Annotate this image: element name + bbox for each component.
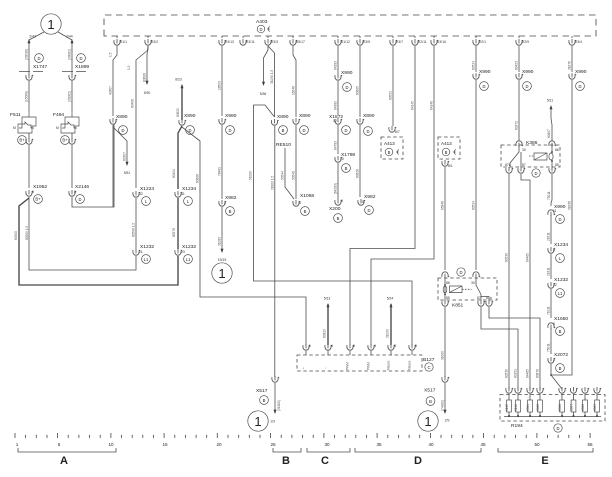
off-page arrow 5/24 to B127 [386,297,394,346]
section bracket C [307,448,350,467]
svg-text:30: 30 [324,442,330,447]
svg-text:[64283]: [64283] [334,183,338,194]
wire K386 87a output down to R194 [505,167,514,389]
svg-text:D: D [228,128,231,133]
svg-text:F511: F511 [10,112,21,118]
svg-text:31636: 31636 [568,201,572,210]
svg-text:D: D [78,197,81,202]
connector X1232 (right) [175,244,197,263]
A403 pin X2/9 [516,36,529,45]
svg-text:1.5: 1.5 [109,52,113,57]
svg-text:31090 1.5: 31090 1.5 [270,70,274,84]
svg-text:L1: L1 [144,257,149,262]
svg-text:B: B [229,209,232,214]
wire X2/1 down [472,46,477,72]
wire X3/2 stub to off-page 5/30 [143,46,151,95]
svg-text:15: 15 [162,442,168,447]
svg-text:5/13: 5/13 [324,297,331,301]
svg-text:71011: 71011 [547,306,551,315]
antenna module A413 (right) [438,137,460,168]
node 1 circle (bottom left) [248,411,268,431]
svg-text:80500: 80500 [14,231,18,240]
svg-text:M: M [56,126,59,130]
svg-text:1: 1 [16,442,19,447]
B127 pin 2 [324,344,334,369]
svg-text:1: 1 [254,414,261,429]
connector X1650 [547,316,569,354]
svg-text:K851: K851 [452,303,464,309]
A403 pin X3/4 [569,36,582,45]
svg-text:PWM: PWM [367,362,371,370]
svg-text:60524: 60524 [472,61,476,70]
svg-text:B127: B127 [423,357,435,363]
wire K851 85 output down to X517 right [441,300,450,377]
svg-text:X200: X200 [329,206,341,212]
svg-text:RE510: RE510 [276,142,291,148]
svg-text:45: 45 [480,442,486,447]
connector X890 (under X1/1) [110,114,128,207]
svg-text:5: 5 [58,442,61,447]
wire X2/9 down [515,46,520,72]
svg-text:40: 40 [428,442,434,447]
svg-text:X1234: X1234 [554,242,568,248]
svg-text:D: D [259,27,262,32]
svg-text:X517: X517 [424,388,436,394]
wire X3/3 down with 5/36 stub [260,46,275,117]
svg-text:64783: 64783 [334,141,338,150]
svg-text:65846: 65846 [441,201,445,210]
svg-text:L1: L1 [186,257,191,262]
svg-text:X3/13: X3/13 [225,40,234,44]
svg-text:6066: 6066 [558,404,562,411]
svg-text:10: 10 [108,442,114,447]
svg-text:B: B [345,166,348,171]
svg-text:1.5: 1.5 [127,65,131,70]
connector X1232 (left) [133,244,155,263]
svg-text:D: D [578,84,581,89]
svg-text:X517: X517 [256,388,268,394]
wire X2/11 down and route to B127 pin3 [350,46,415,345]
wire X1952 branch 80509 down to X1232 left [25,197,136,270]
svg-text:X2/1: X2/1 [479,40,486,44]
wire X3/7 down to 8/7 [389,46,400,134]
section bracket B [273,448,301,467]
section bracket E [498,448,593,467]
R194 resistor 7 [581,387,589,417]
svg-text:6116: 6116 [514,404,518,411]
A403 pin X3/16 [431,36,446,45]
svg-text:X890: X890 [363,113,375,119]
fuse F494 [53,111,79,188]
connector X1232 (right column) [547,277,569,318]
B127 pin 6 [408,344,418,370]
svg-text:D: D [37,56,40,61]
svg-text:60605: 60605 [356,86,360,95]
svg-text:6/23: 6/23 [175,78,182,82]
svg-text:80404: 80404 [172,169,176,178]
B127 pin 4 [367,344,377,370]
svg-text:X1952: X1952 [33,184,47,190]
svg-text:16546: 16546 [292,86,296,95]
svg-text:31090: 31090 [386,329,390,338]
connector X982 (X3/13 chain) [218,195,237,249]
svg-text:X2/9: X2/9 [522,40,529,44]
svg-text:64283: 64283 [334,61,338,70]
connector X1234 (right column) [547,242,569,279]
svg-text:D: D [302,128,305,133]
svg-text:60406: 60406 [131,99,135,108]
svg-text:X1/12: X1/12 [341,40,350,44]
svg-text:B: B [429,399,432,404]
svg-text:A413: A413 [441,141,452,146]
svg-text:20: 20 [216,442,222,447]
R194 resistor 6 [570,387,578,417]
svg-text:B: B [388,150,391,155]
svg-text:X3/16: X3/16 [437,40,446,44]
svg-text:B+: B+ [62,138,68,143]
svg-text:X3/2: X3/2 [151,40,158,44]
svg-text:B: B [304,209,307,214]
svg-text:60629: 60629 [176,108,180,117]
connector X1224 [132,186,155,249]
svg-text:19/19: 19/19 [218,258,227,262]
svg-text:D: D [558,217,561,222]
svg-text:1: 1 [309,344,311,348]
svg-text:B: B [445,150,448,155]
svg-text:2/41: 2/41 [29,35,36,39]
svg-text:1: 1 [47,17,54,32]
svg-text:50540: 50540 [292,171,296,180]
svg-text:78461: 78461 [218,167,222,176]
grid ruler [15,433,590,438]
svg-text:X1899: X1899 [75,64,89,70]
connector X1952 [26,184,48,203]
wire 8/1 down to relay K851 coil [441,167,446,270]
svg-text:X3/7: X3/7 [396,40,403,44]
off-page arrow 19/19 into node 1 [218,249,227,262]
wire X1952 branch 80500 heavy to X1232 right [14,198,178,285]
svg-text:PWM: PWM [346,362,350,370]
svg-text:L1: L1 [558,291,563,296]
svg-text:6068: 6068 [581,404,585,411]
connector X1798 [334,152,356,199]
svg-text:D: D [121,128,124,133]
svg-text:75011: 75011 [547,191,551,200]
svg-text:−: − [324,367,328,369]
svg-text:1/3: 1/3 [270,420,275,424]
svg-text:B+: B+ [19,138,25,143]
svg-text:30: 30 [522,148,526,152]
A403 pin X3/7 [390,36,403,45]
svg-text:M: M [13,126,16,130]
connector X982 (X3/5 chain) [358,194,376,214]
svg-text:D: D [367,208,370,213]
resistor RE510 [276,142,294,199]
svg-text:B: B [559,329,562,334]
svg-text:(74900): (74900) [441,400,445,411]
svg-text:X982: X982 [225,195,237,201]
R194 resistor 4 [536,387,544,417]
B127 pin 1 [302,344,312,369]
svg-text:60372: 60372 [515,121,519,130]
svg-text:30: 30 [471,281,475,285]
svg-text:64389: 64389 [334,101,338,110]
connector X1234 [172,186,196,249]
svg-text:(15008): (15008) [25,91,29,102]
svg-text:21811: 21811 [547,232,551,241]
svg-text:21811: 21811 [547,267,551,276]
wire K386 87 output down to R194 [518,167,530,389]
control unit A403 dashed box [104,15,596,36]
svg-text:60608: 60608 [143,73,147,82]
svg-text:D: D [525,84,528,89]
svg-text:X1747: X1747 [33,64,47,70]
svg-text:X990: X990 [575,69,587,75]
wire X3/2 branch to X1224 [127,46,148,188]
svg-text:(30002): (30002) [68,49,72,60]
connector X2072 [548,352,569,389]
svg-text:X2/11: X2/11 [418,40,427,44]
connector X517 (left) [256,376,281,424]
svg-text:80578: 80578 [172,228,176,237]
svg-text:60524: 60524 [472,201,476,210]
svg-text:D: D [79,56,82,61]
connector X990 (X2/1 chain) [472,69,491,270]
A403 pin X3/2 [145,36,158,45]
connector X517 (right) [424,376,449,423]
svg-text:60876: 60876 [536,369,540,378]
svg-text:60626: 60626 [356,169,360,178]
section bracket D [355,448,481,467]
fuse F511 [10,111,36,188]
svg-text:60607: 60607 [547,129,551,138]
svg-text:X3/4: X3/4 [575,40,582,44]
svg-text:5/30: 5/30 [144,91,151,95]
svg-text:X990: X990 [479,69,491,75]
svg-text:31676: 31676 [568,61,572,70]
svg-text:X890: X890 [277,114,289,120]
svg-text:X990: X990 [522,69,534,75]
svg-text:Masse: Masse [387,360,391,370]
connector X1747 [19,54,47,111]
wire X1/12 down [334,46,339,74]
svg-text:2/9: 2/9 [445,419,450,423]
svg-text:6069: 6069 [593,404,597,411]
svg-text:5: 5 [415,344,417,348]
svg-text:X2072: X2072 [554,352,568,358]
svg-text:31800 1.5: 31800 1.5 [270,176,274,190]
svg-text:+: + [302,367,306,369]
svg-text:(30018): (30018) [25,49,29,60]
wire K851 87 output to R194 [478,300,518,389]
svg-text:A403: A403 [256,19,268,25]
wire branch to off-page 5/51 [113,127,130,175]
connector X990 (X3/13 chain) [218,113,237,199]
svg-text:1: 1 [424,414,431,429]
svg-text:85: 85 [446,296,450,300]
svg-text:4: 4 [331,344,333,348]
svg-text:86: 86 [446,281,450,285]
svg-text:55: 55 [587,442,593,447]
wire X3/4 down [568,46,573,72]
connector X890 (X3/5 chain) [356,113,375,197]
connector X990 (X1/12 chain) [334,70,353,115]
svg-text:31000: 31000 [441,351,445,360]
svg-text:8/7: 8/7 [395,130,400,134]
wire branch from X890 up-left to route C [249,105,413,345]
svg-text:X3/5: X3/5 [363,40,370,44]
svg-text:64146: 64146 [430,101,434,110]
A403 pin X3/5 [357,36,370,45]
svg-text:F494: F494 [53,112,64,118]
connector X1068 [293,193,315,215]
svg-text:X890: X890 [184,113,196,119]
wire from node 1 right branch [58,32,74,60]
A403 pin X5/17 [290,36,305,45]
svg-text:4: 4 [374,344,376,348]
antenna module A413 (left) [381,137,403,159]
svg-text:X1650: X1650 [554,316,568,322]
B127 pin 5 [387,344,397,370]
connector X890 (X5/17 chain) [292,113,311,199]
svg-text:31083: 31083 [218,237,222,246]
wire from node 1 left branch [25,32,45,60]
svg-text:D: D [345,85,348,90]
svg-text:X990: X990 [225,113,237,119]
svg-text:85: 85 [555,163,559,167]
svg-text:25: 25 [270,442,276,447]
relay K851 [438,268,497,309]
off-page arrow 5/13 to B127 [323,297,331,346]
svg-text:18503: 18503 [218,81,222,90]
svg-text:B: B [282,128,285,133]
svg-text:B: B [559,366,562,371]
connector X990 (right column) [547,204,566,244]
A403 pin X1/12 [335,36,350,45]
svg-text:64465: 64465 [526,253,530,262]
svg-text:60530: 60530 [505,369,509,378]
connector X1872 [329,114,350,154]
svg-text:6065: 6065 [536,404,540,411]
K386 code circle D [532,169,540,177]
svg-text:C: C [427,365,430,370]
wire X3/16 down and route to B127 pin4 [371,46,434,345]
R194 resistor 1 [505,387,513,417]
svg-text:X3/3: X3/3 [271,40,278,44]
svg-text:50544: 50544 [281,171,285,180]
svg-text:X5/17: X5/17 [296,40,305,44]
wire X3/13 down [218,46,223,116]
svg-text:86: 86 [555,148,559,152]
svg-text:B: B [337,216,340,221]
svg-text:E: E [541,455,548,467]
A403 pin X3/13 [219,36,234,45]
A403 pin X3/11 [240,36,255,45]
svg-text:80509 1.5: 80509 1.5 [25,226,29,240]
svg-text:60606: 60606 [196,174,200,183]
B127 pin 3 [346,344,356,370]
svg-text:6067: 6067 [570,404,574,411]
svg-text:87a: 87a [505,163,511,167]
svg-text:D: D [534,171,537,176]
svg-text:5/51: 5/51 [124,171,131,175]
off-page source 6/23 heavy wire [175,78,183,121]
svg-text:X1068: X1068 [300,193,314,199]
svg-text:D: D [482,84,485,89]
svg-text:A: A [60,455,68,467]
A403 pin X2/1 [473,36,486,45]
R194 resistor 2 [514,387,522,417]
svg-text:X2146: X2146 [75,184,89,190]
svg-text:X890: X890 [299,113,311,119]
svg-text:50: 50 [534,442,540,447]
svg-text:60151: 60151 [514,369,518,378]
svg-text:X982: X982 [364,194,376,200]
relay K386 [501,140,560,167]
connector X2146 [69,124,114,207]
svg-text:75011: 75011 [547,343,551,352]
connector X990 (X2/9 chain) [515,69,534,141]
R194 resistor 5 [558,387,566,417]
svg-text:64145: 64145 [411,101,415,110]
wire X5/17 down [292,46,297,117]
svg-text:B: B [263,398,266,403]
wire K851 87a output to R194 [486,300,540,389]
connector X200 [329,199,343,222]
svg-text:1: 1 [218,266,225,281]
section bracket A [18,448,116,467]
ruler numbers [16,442,593,447]
svg-text:D: D [459,270,462,275]
svg-text:80508 1.5: 80508 1.5 [132,223,136,237]
connector X990 (X3/4 chain) [551,69,587,375]
svg-text:60307: 60307 [123,152,127,161]
svg-text:5/36: 5/36 [260,92,267,96]
A403 pin X3/3 [265,36,278,45]
svg-text:2/44: 2/44 [66,35,73,39]
svg-text:D: D [414,455,422,467]
svg-text:D: D [366,129,369,134]
wire X1/1 down [109,46,118,116]
svg-text:Masse: Masse [408,360,412,370]
A403 pin X2/11 [412,36,427,45]
connector X1899 [62,54,89,111]
node 1 circle (bottom right) [418,411,438,431]
wire thin branch from X890 to B127 route [182,127,306,345]
svg-text:D: D [556,426,559,431]
svg-text:6: 6 [353,344,355,348]
svg-text:X990: X990 [341,70,353,76]
wire X3/5 down [356,46,361,117]
svg-text:X1/1: X1/1 [120,40,127,44]
R194 resistor 8 [593,387,601,417]
svg-text:D: D [344,128,347,133]
svg-text:60453: 60453 [515,61,519,70]
off-page arrow 5/11 to K386 coil [547,99,553,142]
svg-text:8/1: 8/1 [448,164,453,168]
svg-text:87: 87 [522,163,526,167]
svg-text:R194: R194 [511,423,523,429]
svg-text:3: 3 [394,344,396,348]
svg-text:60530: 60530 [505,253,509,262]
svg-text:5/11: 5/11 [547,99,553,103]
connector X890 (6/23 chain) [172,113,196,189]
svg-text:87: 87 [477,296,481,300]
svg-text:B: B [282,455,290,467]
svg-text:60829: 60829 [323,329,327,338]
connector X890 (X3/3 chain) [270,114,288,377]
node 1 circle (middle) [212,263,232,283]
